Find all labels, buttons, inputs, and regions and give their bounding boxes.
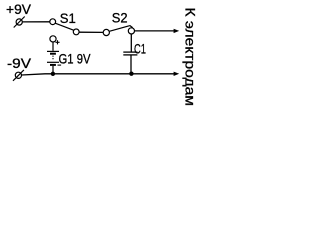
svg-text:S1: S1 <box>60 11 76 26</box>
svg-text:C1: C1 <box>134 41 146 56</box>
dotted line (omitted cells) <box>52 56 54 61</box>
battery G1 cell 1 long plate <box>47 50 59 52</box>
terminal +9V <box>14 17 25 28</box>
switch S1 <box>50 19 79 35</box>
wire C1 down to bottom rail <box>130 56 132 74</box>
plus sign of G1 <box>55 40 59 44</box>
battery G1 cell 1 short plate <box>50 53 56 55</box>
wire S2 to top arrow <box>135 30 174 32</box>
svg-text:-9V: -9V <box>7 56 31 71</box>
junction G1/bottom rail <box>51 72 55 76</box>
wire from +9V terminal to S1 <box>22 21 49 23</box>
battery G1 plus terminal <box>50 36 56 42</box>
svg-text:+9V: +9V <box>6 2 31 17</box>
battery G1 cell 2 long plate <box>47 61 59 63</box>
arrowhead bottom <box>174 72 180 76</box>
arrowhead top <box>174 29 180 33</box>
terminal -9V <box>13 70 24 81</box>
minus sign of G1 <box>58 64 62 66</box>
switch S2 <box>103 26 134 36</box>
wire S2 right contact down to C1 <box>130 34 132 52</box>
wire terminal to battery top plate <box>52 42 54 51</box>
capacitor C1 <box>123 52 137 55</box>
svg-text:К электродам: К электродам <box>183 8 199 107</box>
battery G1 cell 2 short plate <box>50 64 56 66</box>
svg-text:G1 9V: G1 9V <box>59 52 91 67</box>
junction C1/bottom rail <box>129 72 133 76</box>
svg-text:S2: S2 <box>112 11 128 26</box>
wire S1 to S2 <box>79 31 103 33</box>
bottom rail wire <box>22 74 174 75</box>
wire battery bottom plate to rail <box>52 66 54 74</box>
